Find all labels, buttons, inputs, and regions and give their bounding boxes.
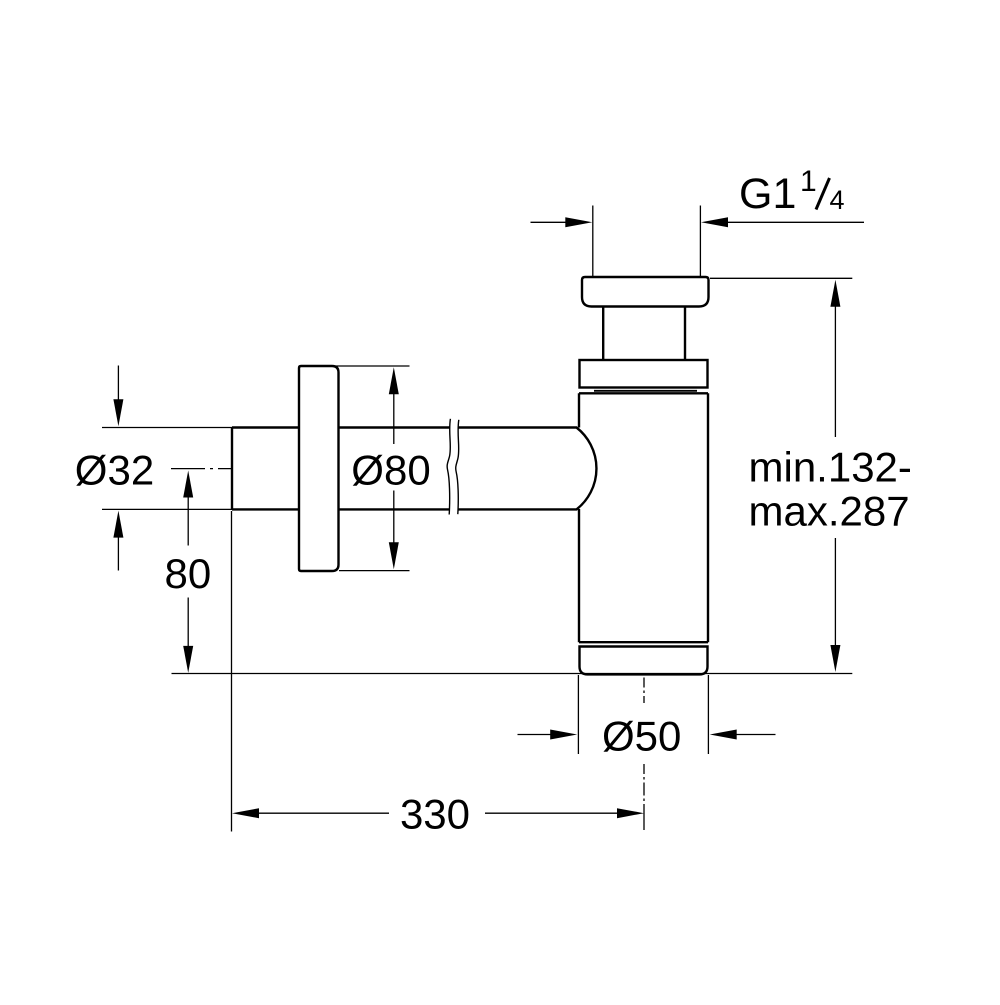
G1 1/4 right dimension arrow	[701, 217, 864, 227]
O32 top extension line	[102, 427, 232, 429]
label min.132-max.287	[749, 443, 912, 534]
330 left extension line	[231, 511, 233, 832]
svg-text:1: 1	[800, 165, 817, 198]
O80 dimension line with arrows	[389, 367, 399, 569]
svg-text:330: 330	[400, 791, 470, 838]
nut	[580, 360, 708, 388]
min/max dimension line with arrows	[830, 280, 840, 672]
wall flange (escutcheon plate)	[299, 366, 339, 571]
neck tube	[603, 307, 685, 361]
O32 bottom extension line	[102, 508, 232, 510]
wire horizontal pipe right section with domed end	[458, 428, 596, 510]
body centerline vertical	[643, 678, 645, 704]
bottom cap of body	[580, 647, 708, 675]
wire horizontal pipe left section	[232, 428, 450, 510]
svg-text:80: 80	[165, 550, 212, 597]
trap body cup	[579, 393, 708, 642]
node pipe break symbol	[447, 419, 459, 515]
G1 1/4 left extension line	[592, 206, 594, 277]
pipe centerline	[171, 468, 231, 470]
80 dimension line with arrows	[183, 471, 193, 673]
svg-text:Ø80: Ø80	[351, 447, 430, 494]
svg-text:max.287: max.287	[749, 487, 910, 534]
svg-text:min.132-: min.132-	[749, 443, 912, 490]
label G1 1/4	[739, 165, 845, 218]
O80 bottom extension line	[339, 570, 410, 572]
O50 left extension line	[577, 675, 579, 754]
G1 1/4 right extension line	[699, 206, 701, 277]
svg-text:Ø32: Ø32	[75, 447, 154, 494]
330 dimension line with arrows	[232, 808, 644, 818]
svg-text:Ø50: Ø50	[602, 713, 681, 760]
G1 1/4 left dimension arrow	[531, 217, 593, 227]
top flange (sink connection)	[582, 277, 709, 307]
O32 dimension arrows	[113, 366, 123, 571]
min/max top extension line	[710, 277, 852, 279]
svg-text:G1: G1	[739, 170, 796, 218]
O50 dimension arrows	[518, 730, 776, 740]
bottom long reference line	[172, 673, 853, 675]
gasket line under nut	[594, 390, 697, 392]
O50 right extension line	[707, 675, 709, 754]
O80 top extension line	[335, 365, 410, 367]
svg-text:4: 4	[830, 185, 845, 215]
